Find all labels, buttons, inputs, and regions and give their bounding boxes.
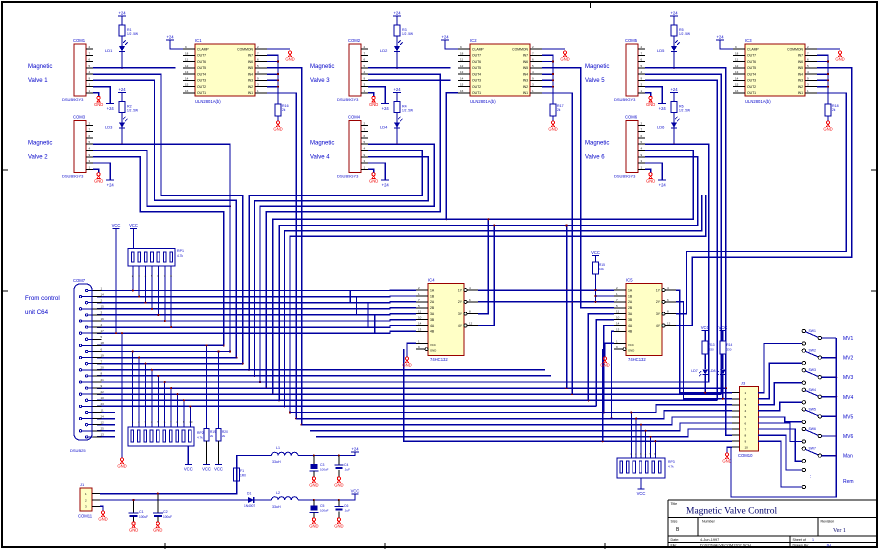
right pins of IC2 xyxy=(530,45,542,93)
connector COM4 xyxy=(348,114,361,172)
wire DB25 row5 to IC4 xyxy=(97,314,416,315)
power +24 at COM2 xyxy=(381,104,389,112)
junctions on IC1 input bus xyxy=(277,60,279,87)
power +24 above R5 xyxy=(670,11,678,17)
wire +24 input rail xyxy=(100,468,237,493)
power +24 above R6 xyxy=(670,87,678,93)
wire switch SW4 to bus xyxy=(822,396,838,398)
wire IC1 inputs bus xyxy=(267,55,278,104)
junctions on IC2 input bus xyxy=(552,60,554,87)
svg-text:IN2: IN2 xyxy=(798,85,803,89)
svg-text:13: 13 xyxy=(616,327,620,331)
pins of RP3 xyxy=(630,411,656,458)
power +24 at COM1 xyxy=(106,104,114,112)
svg-text:12: 12 xyxy=(667,322,671,326)
svg-text:1Y: 1Y xyxy=(656,288,661,292)
svg-text:D1: D1 xyxy=(247,492,251,496)
pins of RP2 to DB25 rows xyxy=(132,350,193,427)
switch SW7 xyxy=(802,447,821,463)
svg-text:OUT4: OUT4 xyxy=(197,72,206,76)
left pins of IC5 xyxy=(614,286,633,334)
ground at COM5 xyxy=(646,96,655,107)
svg-text:14: 14 xyxy=(418,322,422,326)
svg-text:Magnetic Valve Control: Magnetic Valve Control xyxy=(686,507,777,517)
svg-text:12: 12 xyxy=(185,64,189,68)
wire COM5 pin6 down xyxy=(645,80,717,400)
svg-text:COMMON: COMMON xyxy=(512,47,528,51)
svg-text:3B: 3B xyxy=(430,318,435,322)
wire COM5 pin5 down xyxy=(645,74,721,394)
wire COM1 pin8 to ground xyxy=(93,93,99,97)
svg-text:15: 15 xyxy=(185,83,189,87)
svg-text:OUT7: OUT7 xyxy=(197,54,206,58)
pin names inside IC2 xyxy=(472,47,529,95)
wire IC4 input jog d xyxy=(374,315,376,333)
svg-text:330: 330 xyxy=(709,348,714,352)
svg-text:1/2 .5W: 1/2 .5W xyxy=(127,32,138,36)
svg-text:LD2: LD2 xyxy=(380,48,388,53)
svg-text:SW5: SW5 xyxy=(809,407,816,411)
wire C5 to ground xyxy=(313,513,315,519)
svg-text:GND: GND xyxy=(334,483,343,488)
svg-text:VCC: VCC xyxy=(112,223,121,228)
ground at COM2 xyxy=(369,96,378,107)
svg-text:COM11: COM11 xyxy=(78,514,93,519)
svg-text:Rem: Rem xyxy=(843,479,854,485)
power VCC at R13 xyxy=(701,325,710,331)
svg-text:GND: GND xyxy=(646,178,655,183)
label DSUB9GY3 xyxy=(62,97,84,102)
wire COM10 to ground xyxy=(727,447,732,453)
svg-text:COM4: COM4 xyxy=(348,114,361,119)
svg-text:IN5: IN5 xyxy=(248,66,253,70)
wire COM3 pin4 to bus xyxy=(93,144,231,207)
wire 0V input rail xyxy=(100,499,246,501)
svg-text:12: 12 xyxy=(735,64,739,68)
IC IC5 box xyxy=(626,278,662,356)
wire COM2 pin7 to +24 xyxy=(368,87,385,104)
svg-text:C2: C2 xyxy=(163,510,168,514)
wire COM10 pin6 to switch xyxy=(758,423,802,442)
svg-text:2B: 2B xyxy=(628,306,633,310)
switch SW2 xyxy=(802,349,821,365)
power pins of IC4 xyxy=(416,339,436,352)
wire LD4 to junction xyxy=(396,128,398,144)
svg-text:GND: GND xyxy=(98,517,107,522)
svg-text:IN7: IN7 xyxy=(248,54,253,58)
power VCC below R20 xyxy=(214,465,223,472)
junction at COM2 row4 xyxy=(396,67,398,69)
svg-text:COMMON: COMMON xyxy=(237,47,253,51)
svg-text:1A: 1A xyxy=(430,288,435,292)
power +24 at IC2 clamp xyxy=(441,35,449,41)
IC IC3 box xyxy=(745,38,805,96)
svg-text:VCC: VCC xyxy=(351,489,360,494)
ground below C1 xyxy=(129,522,138,533)
wire IC3 in1 west xyxy=(676,93,846,314)
svg-text:+24: +24 xyxy=(441,35,449,40)
wire corridor drop v1 xyxy=(566,224,568,388)
wire IC5 2Y to COM10 xyxy=(676,302,732,399)
svg-text:4A: 4A xyxy=(430,324,435,328)
LED LD2 xyxy=(380,41,403,54)
wire switch SW7 to bus xyxy=(822,455,838,457)
svg-text:IN7: IN7 xyxy=(523,54,528,58)
svg-text:Valve 2: Valve 2 xyxy=(28,154,48,160)
svg-text:+24: +24 xyxy=(118,87,126,92)
svg-text:+24: +24 xyxy=(670,87,678,92)
svg-text:GND: GND xyxy=(153,528,162,533)
svg-text:File:: File: xyxy=(671,544,678,548)
resistor R19 xyxy=(204,429,216,441)
power +24 at COM6 xyxy=(658,180,666,188)
svg-text:RP3: RP3 xyxy=(668,460,675,464)
svg-text:GND: GND xyxy=(94,102,103,107)
svg-text:DSUB9GY3: DSUB9GY3 xyxy=(62,97,84,102)
svg-text:VCC: VCC xyxy=(718,325,727,330)
wire DB25 row10 xyxy=(97,344,224,346)
svg-text:4.7k: 4.7k xyxy=(177,254,183,258)
svg-text:Magnetic: Magnetic xyxy=(585,64,609,70)
svg-text:ULN2801A(b): ULN2801A(b) xyxy=(470,99,496,104)
svg-text:SW3: SW3 xyxy=(809,368,816,372)
left pins of IC1 xyxy=(183,45,195,93)
wire switch common bus xyxy=(731,338,836,497)
svg-text:17: 17 xyxy=(101,329,105,333)
svg-text:25: 25 xyxy=(101,427,105,431)
svg-text:MV6: MV6 xyxy=(843,434,854,440)
svg-text:C1: C1 xyxy=(139,510,144,514)
ground below C5 xyxy=(309,518,318,529)
power VCC below RP2 xyxy=(184,465,193,472)
resistor F1 xyxy=(234,468,246,481)
svg-text:DSUB25: DSUB25 xyxy=(70,448,86,453)
svg-text:Magnetic: Magnetic xyxy=(310,140,334,146)
wire R18 to ground xyxy=(827,116,829,121)
resistor R20 xyxy=(216,429,228,441)
pins of COM6 xyxy=(638,121,645,169)
wire DB25 row17 xyxy=(97,387,726,389)
connector COM5 xyxy=(625,38,638,96)
svg-text:GND: GND xyxy=(628,349,634,353)
wire DB25 row20 xyxy=(97,405,596,407)
ground below C6 xyxy=(334,518,343,529)
wire R15 down xyxy=(594,274,614,303)
svg-text:GND: GND xyxy=(369,178,378,183)
svg-text:18: 18 xyxy=(185,51,189,55)
connector COM11 xyxy=(78,482,93,519)
wire corridor row4 xyxy=(289,195,706,414)
svg-text:IN2: IN2 xyxy=(523,85,528,89)
resistor R6 xyxy=(671,101,690,112)
svg-text:OUT3: OUT3 xyxy=(747,79,756,83)
wire IC2 in1 drop xyxy=(542,93,573,394)
border zone tick top xyxy=(590,2,592,8)
wire IC5 3Y up xyxy=(676,313,687,315)
svg-text:Number: Number xyxy=(702,520,716,524)
switch SW1 xyxy=(802,329,821,345)
wire DB25 row14 xyxy=(97,369,545,371)
svg-text:18: 18 xyxy=(460,51,464,55)
svg-text:LD4: LD4 xyxy=(380,124,388,129)
svg-text:Valve 3: Valve 3 xyxy=(310,78,330,84)
wire R19 to VCC xyxy=(206,441,208,465)
svg-text:11: 11 xyxy=(460,58,463,62)
svg-text:4A: 4A xyxy=(628,324,633,328)
svg-text:IN3: IN3 xyxy=(523,79,528,83)
svg-text:2k: 2k xyxy=(282,108,286,112)
label ULN2801A xyxy=(195,99,221,104)
wire DB25 row19 xyxy=(97,399,717,401)
svg-text:11: 11 xyxy=(418,310,421,314)
svg-text:Magnetic: Magnetic xyxy=(28,140,52,146)
capacitor C2 xyxy=(153,493,172,523)
right pins of IC3 xyxy=(805,45,817,93)
svg-text:74HC132: 74HC132 xyxy=(628,357,646,362)
svg-text:2k: 2k xyxy=(557,108,561,112)
svg-text:OUT3: OUT3 xyxy=(197,79,206,83)
svg-text:Sheet of: Sheet of xyxy=(793,538,806,542)
wire R2 to LED LD3 xyxy=(121,112,123,122)
wire COM6 pin7 to +24 xyxy=(645,163,662,180)
label DSUB9GY3 xyxy=(614,173,636,178)
LED LD6 xyxy=(657,117,680,129)
svg-text:22: 22 xyxy=(101,390,105,394)
wire R3 to LED LD2 xyxy=(396,36,398,46)
svg-text:VCC: VCC xyxy=(129,223,138,228)
wire COM10 pin3 to switch xyxy=(758,383,802,405)
LED LD5 xyxy=(657,41,680,54)
junction at COM6 row4 xyxy=(673,143,675,145)
connector COM7 DB25 xyxy=(70,278,92,453)
wire R6 to LED LD6 xyxy=(673,112,675,122)
svg-text:COM3: COM3 xyxy=(73,114,86,119)
svg-text:12: 12 xyxy=(469,322,473,326)
title block texts xyxy=(671,502,846,548)
wire IC3 common to ground xyxy=(817,48,840,50)
power +24 at IC1 clamp xyxy=(166,35,174,41)
svg-text:LD7: LD7 xyxy=(691,369,698,373)
resistor network RP2 xyxy=(128,427,204,446)
svg-text:11: 11 xyxy=(185,58,188,62)
wire +24 to IC1 pin9 xyxy=(170,40,183,49)
svg-text:2Y: 2Y xyxy=(458,300,463,304)
svg-text:IC4: IC4 xyxy=(428,278,435,283)
inductor L1 xyxy=(272,446,298,464)
svg-text:IN2: IN2 xyxy=(248,85,253,89)
svg-text:23: 23 xyxy=(101,402,105,406)
svg-text:2A: 2A xyxy=(430,300,435,304)
wire IC5 1Y to COM10 xyxy=(676,290,732,393)
svg-text:18: 18 xyxy=(101,341,105,345)
svg-text:10: 10 xyxy=(189,420,193,424)
wire COM6 pin4 long xyxy=(97,144,709,382)
svg-text:13: 13 xyxy=(101,433,105,437)
svg-text:OUT7: OUT7 xyxy=(472,54,481,58)
svg-text:13: 13 xyxy=(735,70,739,74)
wire LD8 down xyxy=(722,375,724,400)
ground below R18 xyxy=(823,121,832,132)
svg-text:100uF: 100uF xyxy=(320,468,329,472)
wire R16 to ground xyxy=(277,116,279,121)
wire LD3 to junction xyxy=(121,128,123,144)
svg-text:2B: 2B xyxy=(430,306,435,310)
svg-text:IN6: IN6 xyxy=(523,60,528,64)
wire R5 to LED LD5 xyxy=(673,36,675,46)
power VCC at RP1 xyxy=(129,223,138,249)
svg-text:Valve 1: Valve 1 xyxy=(28,78,48,84)
power +24 above R1 xyxy=(118,11,126,17)
junction at COM3 row4 xyxy=(121,143,123,145)
text Magnetic Valve 3 label xyxy=(310,64,334,84)
connector COM1 xyxy=(73,38,86,96)
svg-text:4B: 4B xyxy=(628,330,633,334)
wire IC4 gnd xyxy=(407,343,416,357)
ground at IC4 xyxy=(402,357,411,368)
svg-text:CLAMP: CLAMP xyxy=(472,47,484,51)
svg-text:IN4: IN4 xyxy=(798,72,803,76)
wire COM4 pin5 to bus xyxy=(248,150,422,370)
svg-text:11: 11 xyxy=(735,58,738,62)
wire bottom row21 to COM10 xyxy=(290,405,732,413)
label MV2 xyxy=(843,356,854,362)
svg-text:1R0: 1R0 xyxy=(240,474,246,478)
resistor network RP3 xyxy=(617,458,675,478)
svg-text:2k: 2k xyxy=(210,434,214,438)
switch SW4 xyxy=(802,388,821,404)
svg-text:14: 14 xyxy=(460,76,464,80)
svg-text:IN1: IN1 xyxy=(798,91,803,95)
wire COM10 pin1 to switch xyxy=(758,344,802,393)
svg-text:15: 15 xyxy=(460,83,464,87)
svg-text:OUT4: OUT4 xyxy=(747,72,756,76)
svg-text:GND: GND xyxy=(273,127,282,132)
label MV1 xyxy=(843,336,854,342)
LED LD1 xyxy=(105,41,128,54)
pins of COM2 xyxy=(361,45,368,93)
wire corridor row2 xyxy=(278,157,698,402)
svg-text:DSUB9GY3: DSUB9GY3 xyxy=(337,97,359,102)
svg-text:ULN2801A(b): ULN2801A(b) xyxy=(195,99,221,104)
wire bottom row23 to COM10 xyxy=(302,417,732,425)
svg-text:10: 10 xyxy=(745,446,749,450)
resistor R1 xyxy=(119,25,138,36)
pins of COM11 xyxy=(85,492,100,509)
svg-text:OUT2: OUT2 xyxy=(472,85,481,89)
svg-text:CLAMP: CLAMP xyxy=(747,47,759,51)
power +24 above R2 xyxy=(118,87,126,93)
svg-text:+24: +24 xyxy=(716,35,724,40)
svg-text:COMMON: COMMON xyxy=(787,47,803,51)
LED LD8 xyxy=(709,369,726,376)
svg-text:14: 14 xyxy=(735,76,739,80)
svg-text:1/2 .5W: 1/2 .5W xyxy=(679,32,690,36)
wire corridor row1 xyxy=(272,150,694,395)
wire bottom row22 to COM10 xyxy=(296,411,732,419)
label MV3 xyxy=(843,375,854,381)
power VCC rail xyxy=(112,223,121,334)
svg-text:unit C64: unit C64 xyxy=(25,309,49,316)
junctions on IC3 input bus xyxy=(827,60,829,87)
svg-text:4Y: 4Y xyxy=(656,324,661,328)
svg-text:GND: GND xyxy=(835,57,844,62)
svg-text:IC5: IC5 xyxy=(626,278,633,283)
svg-text:1N4007: 1N4007 xyxy=(244,504,255,508)
wire COM1 pin7 to +24 xyxy=(93,87,110,104)
svg-text:1Y: 1Y xyxy=(458,288,463,292)
text From control unit xyxy=(25,295,60,316)
wire IC4 gnd row xyxy=(404,349,732,442)
svg-text:MV1: MV1 xyxy=(843,336,854,342)
wire R13 to LD7 xyxy=(704,354,706,369)
ground at COM6 xyxy=(646,173,655,184)
wire COM10 pin5 to switch xyxy=(758,417,802,422)
wire IC5 gnd down xyxy=(602,349,604,441)
wire COM4 pin8 to ground xyxy=(368,169,374,173)
ground below R17 xyxy=(548,121,557,132)
svg-text:IN3: IN3 xyxy=(798,79,803,83)
svg-text:+24: +24 xyxy=(382,182,390,187)
svg-text:SW2: SW2 xyxy=(809,349,816,353)
svg-text:SW4: SW4 xyxy=(809,388,816,392)
wire switch SW6 to bus xyxy=(822,435,838,437)
svg-text:4B: 4B xyxy=(430,330,435,334)
wire switch SW1 to bus xyxy=(822,337,837,339)
power +24 at COM4 xyxy=(381,180,389,188)
svg-text:13: 13 xyxy=(460,70,464,74)
ground at IC1 common xyxy=(285,51,294,62)
wire LD2 to junction xyxy=(396,52,398,68)
label DSUB9GY3 xyxy=(614,97,636,102)
svg-text:+24: +24 xyxy=(670,11,678,16)
svg-text:+24: +24 xyxy=(393,11,401,16)
svg-text:GND: GND xyxy=(722,459,731,464)
wire DB25 pin stub 25 xyxy=(97,436,115,438)
svg-text:VCC: VCC xyxy=(591,250,600,255)
wire COM5 pin4 down xyxy=(645,68,732,435)
pins of COM10 xyxy=(732,391,748,450)
svg-text:Valve 5: Valve 5 xyxy=(585,78,605,84)
svg-text:OUT2: OUT2 xyxy=(197,85,206,89)
svg-text:14: 14 xyxy=(101,292,105,296)
svg-text:IN7: IN7 xyxy=(798,54,803,58)
wire DB25 row3 to IC4 xyxy=(97,301,416,304)
svg-text:100uF: 100uF xyxy=(139,515,148,519)
power +24 at IC3 clamp xyxy=(716,35,724,41)
svg-text:C4: C4 xyxy=(344,463,348,467)
wire IC2 out1 drop xyxy=(445,93,458,220)
wire DB25 row1 to IC4 xyxy=(97,289,416,291)
svg-text:COM7: COM7 xyxy=(73,278,86,283)
svg-text:OUT6: OUT6 xyxy=(197,60,206,64)
wire R14 to LD8 xyxy=(722,354,724,369)
wire DB25 shield to ground xyxy=(121,332,123,458)
svg-text:VCC: VCC xyxy=(214,467,223,472)
svg-text:SW6: SW6 xyxy=(809,427,816,431)
svg-text:OUT5: OUT5 xyxy=(197,66,206,70)
wire COM10 pin4 to switch xyxy=(758,402,802,411)
svg-text:IN1: IN1 xyxy=(523,91,528,95)
wire IC5 in5 riser xyxy=(588,314,614,401)
wire +24 to IC3 pin9 xyxy=(720,40,733,49)
svg-text:F1: F1 xyxy=(240,469,244,473)
title block frame xyxy=(668,500,877,547)
pins of COM4 xyxy=(361,121,368,169)
svg-text:Valve 6: Valve 6 xyxy=(585,154,605,160)
wire COM4 pin4 to bus xyxy=(259,144,434,383)
wire +24 to R5 xyxy=(673,16,675,25)
label DSUB9GY3 xyxy=(337,97,359,102)
